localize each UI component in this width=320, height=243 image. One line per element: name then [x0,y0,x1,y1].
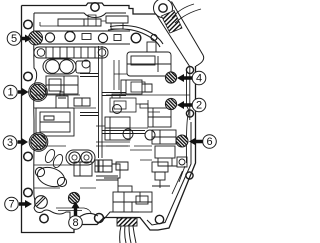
plug 3 outer ring [29,133,48,152]
callout 1 [4,85,18,99]
arrow 4 [177,74,192,82]
valve end circle row 1 [45,33,54,42]
outer casting outline [22,3,196,233]
center spine channel [80,46,145,158]
plug 8 crosshatched [68,192,79,203]
small square row [114,35,121,41]
bolt hole arm base small [151,35,157,41]
svg-text:4: 4 [196,73,202,85]
long spool valve [34,47,108,58]
callout 8 [69,216,83,230]
svg-text:5: 5 [11,33,17,45]
plug 1 crosshatched [30,84,46,100]
bolt hole left mid [24,152,33,161]
cable curves top right [172,4,201,23]
pipe curve [108,26,163,48]
small rect row [82,34,91,40]
plug 1 outer ring [29,83,48,102]
oval with ear bolts [35,164,67,190]
block below plug4 [121,80,152,94]
arrow 7 [19,200,32,208]
svg-text:6: 6 [206,136,212,148]
mid center block [105,117,133,140]
plug 5 crosshatched [29,31,43,45]
teardrop pair [43,148,64,169]
svg-text:2: 2 [196,100,202,112]
wires [120,226,136,243]
right valve block [127,42,171,76]
top arm of casting [154,0,204,67]
bolt hole top arm [159,4,167,12]
bolt hole top-left [24,20,33,29]
arrow 8 [72,202,80,216]
inner casting contour [34,13,191,225]
svg-text:7: 7 [8,199,14,211]
bolt hole right mid [186,110,193,117]
arrow 3 [18,138,29,146]
callout 6 [203,135,217,149]
right bottom stem blocks [152,157,187,188]
block under spool [46,76,78,94]
plug 4 crosshatched [165,72,176,83]
arrow 1 [18,88,29,96]
arrow 6 [189,138,203,146]
plug 2 crosshatched [165,98,176,109]
bolt hole right lower [186,172,193,179]
callout 5 [7,32,21,46]
valve end circle row 2 [65,32,75,42]
rects upper right of oval [74,162,118,180]
bottom connector assembly [113,186,152,212]
top small lines [40,15,106,26]
bolt hole bottom center [95,214,104,223]
bolt hole left upper [24,72,33,81]
small valve circles center [82,60,155,140]
mid left big block [36,92,90,136]
plug 6 crosshatched [176,135,188,147]
valve end circle row 3 [98,33,107,42]
callout 7 [5,197,19,211]
top rectangle block B [106,16,128,29]
center long splits [34,95,190,146]
mid right block upper [148,108,171,127]
bolt hole bottom left [40,214,48,222]
bolt hole top-middle [91,3,99,11]
svg-text:8: 8 [72,217,78,229]
right edge inner line [172,66,190,194]
bolt hole left lower [24,188,33,197]
double circles upper [43,59,90,74]
bolt hole arm base large [131,33,141,43]
small rects right of circles [98,160,128,172]
center dense lines [96,60,160,146]
plug 3 crosshatched [31,134,47,150]
hatched wire loom [117,218,137,226]
plug 7 slotted [35,196,48,209]
bolt hole right upper [186,66,193,73]
svg-text:1: 1 [7,87,13,99]
double circles lower [66,150,95,165]
bolt hole bottom right [155,215,163,223]
top rail lines [34,31,130,44]
right lower blocks [152,130,176,166]
arrow 2 [177,101,192,109]
callout 3 [3,136,17,150]
left bottom small fittings [95,160,120,186]
callout 2 [192,98,206,112]
top rectangle block A [58,19,101,26]
scallop inner bottom contour [56,208,92,214]
arrow 5 [22,35,32,43]
callout 4 [192,71,206,85]
svg-text:3: 3 [7,137,13,149]
hatched band on arm [162,11,183,34]
mid horizontal split lines [34,146,152,188]
